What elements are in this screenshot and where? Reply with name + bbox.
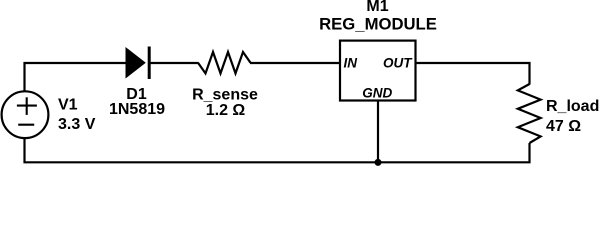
svg-text:M1: M1 xyxy=(366,0,388,15)
svg-text:V1: V1 xyxy=(58,97,78,114)
svg-text:1N5819: 1N5819 xyxy=(109,101,165,118)
svg-text:REG_MODULE: REG_MODULE xyxy=(319,14,437,33)
svg-text:GND: GND xyxy=(362,85,392,100)
svg-text:R_sense: R_sense xyxy=(192,86,258,103)
svg-text:3.3 V: 3.3 V xyxy=(58,116,96,133)
svg-text:IN: IN xyxy=(344,55,358,70)
svg-text:47 Ω: 47 Ω xyxy=(546,118,581,135)
svg-text:1.2 Ω: 1.2 Ω xyxy=(206,102,246,119)
svg-text:R_load: R_load xyxy=(546,98,599,115)
svg-text:OUT: OUT xyxy=(383,55,413,70)
